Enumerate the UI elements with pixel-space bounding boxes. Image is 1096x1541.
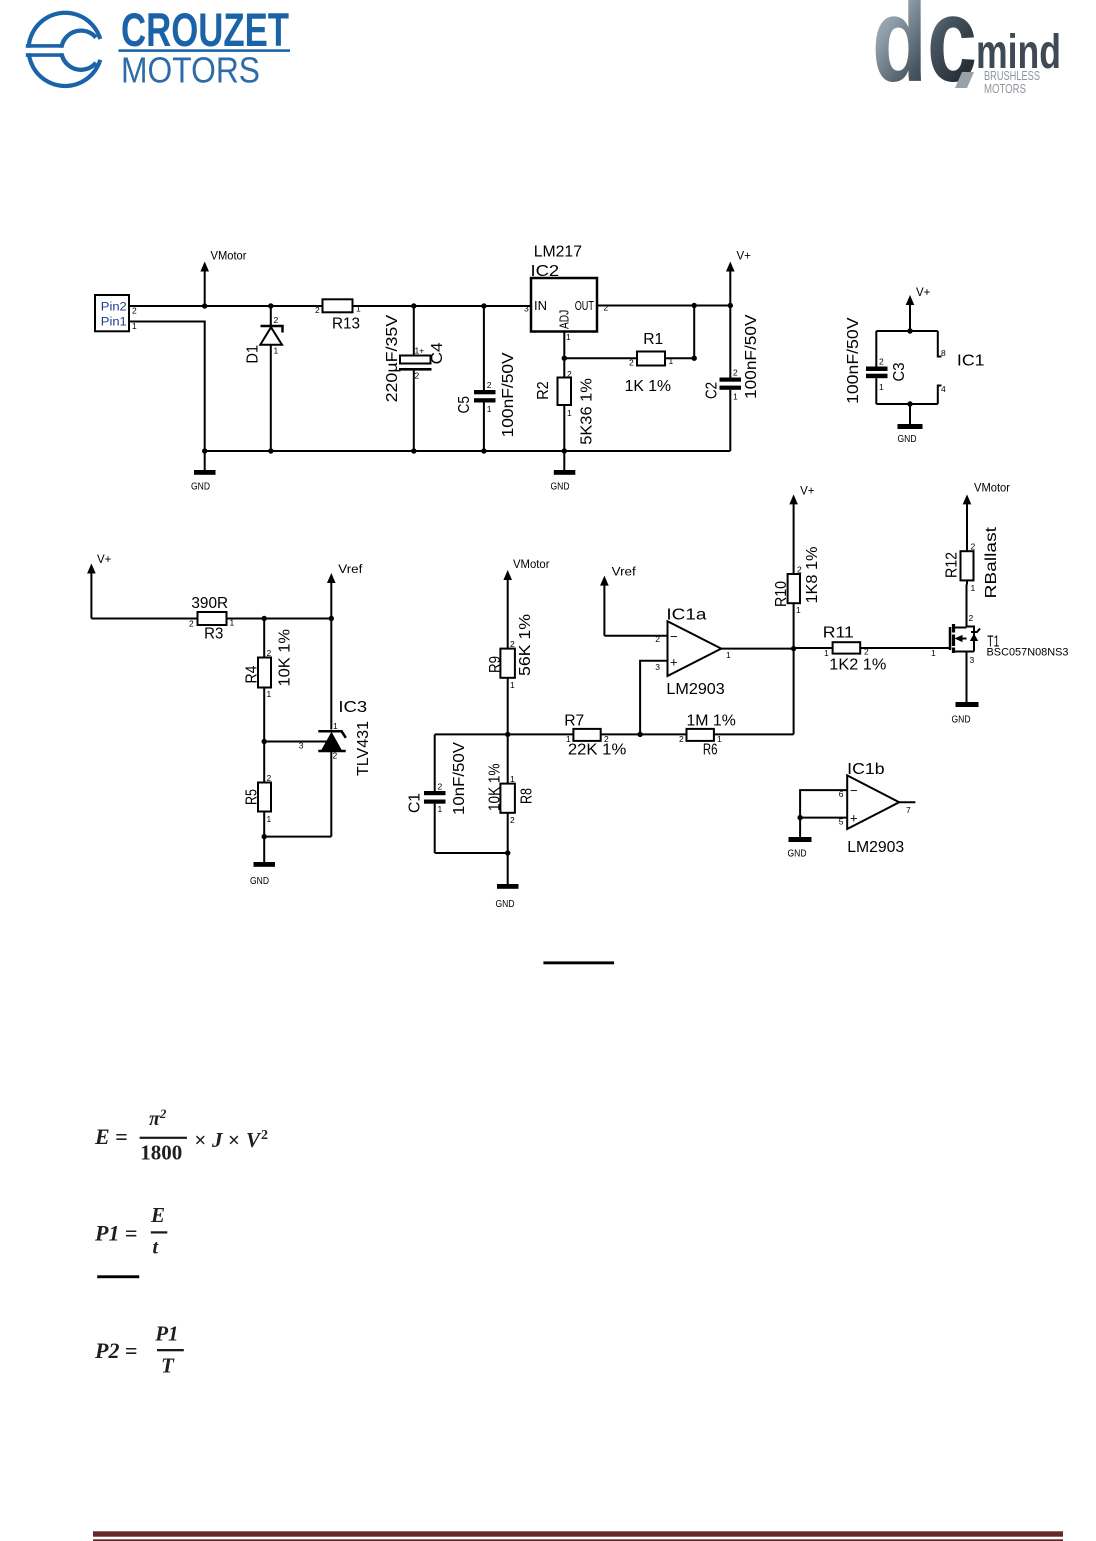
svg-text:1: 1	[726, 650, 731, 660]
svg-text:GND: GND	[191, 481, 210, 493]
svg-text:R3: R3	[204, 626, 223, 643]
svg-text:V+: V+	[97, 554, 112, 566]
svg-text:RBallast: RBallast	[983, 526, 1000, 598]
svg-text:1K2 1%: 1K2 1%	[829, 656, 886, 673]
svg-text:2: 2	[510, 815, 515, 825]
svg-text:TLV431: TLV431	[355, 721, 372, 776]
svg-text:Pin2: Pin2	[101, 302, 127, 314]
svg-text:1: 1	[230, 618, 235, 628]
svg-text:Pin1: Pin1	[101, 316, 127, 328]
svg-text:ADJ: ADJ	[557, 310, 572, 329]
svg-text:1+: 1+	[415, 346, 425, 356]
svg-text:R4: R4	[244, 665, 261, 683]
svg-text:R12: R12	[944, 552, 961, 578]
svg-text:C3: C3	[891, 362, 908, 381]
svg-text:IC1a: IC1a	[666, 606, 706, 623]
svg-text:+: +	[850, 811, 858, 826]
svg-text:IN: IN	[534, 298, 547, 313]
svg-text:Vref: Vref	[612, 567, 637, 579]
svg-text:GND: GND	[952, 714, 971, 726]
svg-text:3: 3	[970, 655, 975, 665]
svg-text:MOTORS: MOTORS	[121, 50, 260, 91]
svg-text:−: −	[850, 783, 858, 798]
svg-text:1: 1	[971, 583, 976, 593]
svg-text:1: 1	[733, 392, 738, 402]
svg-text:1K 1%: 1K 1%	[625, 378, 672, 395]
svg-text:3: 3	[299, 741, 304, 751]
svg-text:1: 1	[510, 774, 515, 784]
svg-text:10nF/50V: 10nF/50V	[451, 742, 468, 815]
svg-text:2: 2	[567, 369, 572, 379]
svg-text:2: 2	[189, 619, 194, 629]
svg-text:1: 1	[438, 804, 443, 814]
svg-text:BSC057N08NS3: BSC057N08NS3	[987, 647, 1069, 659]
svg-text:GND: GND	[898, 433, 917, 445]
svg-text:1: 1	[669, 356, 674, 366]
svg-text:C5: C5	[456, 396, 473, 414]
svg-text:2: 2	[655, 634, 660, 644]
svg-text:dc: dc	[872, 0, 977, 107]
svg-text:T: T	[161, 1354, 175, 1378]
svg-text:5K36 1%: 5K36 1%	[579, 378, 596, 445]
svg-text:π2: π2	[149, 1106, 167, 1130]
svg-text:100nF/50V: 100nF/50V	[743, 314, 760, 399]
svg-text:1: 1	[356, 304, 361, 314]
svg-text:2: 2	[267, 773, 272, 783]
svg-text:CROUZET: CROUZET	[121, 3, 289, 56]
svg-text:×J×V2: ×J×V2	[194, 1128, 268, 1152]
svg-text:R6: R6	[703, 741, 718, 758]
svg-text:IC2: IC2	[531, 263, 560, 280]
svg-text:8: 8	[941, 348, 946, 358]
svg-text:R13: R13	[332, 316, 360, 333]
svg-text:VMotor: VMotor	[513, 559, 550, 571]
svg-text:R11: R11	[823, 624, 854, 641]
svg-text:2: 2	[629, 358, 634, 368]
svg-text:R10: R10	[773, 581, 790, 607]
svg-text:100nF/50V: 100nF/50V	[845, 317, 862, 404]
svg-text:P1 =: P1 =	[94, 1221, 138, 1246]
svg-text:V+: V+	[737, 251, 752, 263]
svg-text:IC1b: IC1b	[847, 761, 885, 778]
svg-text:1: 1	[487, 404, 492, 414]
svg-text:2: 2	[971, 542, 976, 552]
svg-text:OUT: OUT	[575, 298, 594, 313]
svg-text:1: 1	[566, 332, 571, 342]
svg-text:R7: R7	[564, 712, 584, 729]
svg-text:LM2903: LM2903	[666, 681, 724, 698]
svg-text:+: +	[670, 655, 678, 670]
svg-text:10K 1%: 10K 1%	[487, 764, 504, 812]
svg-text:V+: V+	[916, 287, 931, 299]
svg-text:2: 2	[315, 305, 320, 315]
svg-text:390R: 390R	[191, 595, 228, 612]
svg-text:10K 1%: 10K 1%	[277, 629, 294, 687]
svg-text:1: 1	[567, 408, 572, 418]
svg-text:2: 2	[864, 647, 869, 657]
svg-text:t: t	[153, 1237, 160, 1259]
svg-text:220µF/35V: 220µF/35V	[384, 314, 401, 402]
svg-text:2: 2	[333, 751, 338, 761]
svg-text:1: 1	[566, 734, 571, 744]
svg-text:7: 7	[906, 805, 911, 815]
svg-text:1: 1	[333, 721, 338, 731]
svg-text:GND: GND	[788, 848, 807, 860]
svg-text:100nF/50V: 100nF/50V	[500, 352, 517, 437]
svg-text:1: 1	[267, 689, 272, 699]
svg-text:GND: GND	[551, 481, 570, 493]
svg-text:56K 1%: 56K 1%	[517, 614, 534, 676]
svg-text:1800: 1800	[140, 1141, 182, 1165]
svg-text:GND: GND	[496, 898, 515, 910]
svg-text:LM217: LM217	[534, 243, 582, 260]
svg-text:R1: R1	[643, 331, 663, 348]
svg-text:D1: D1	[244, 345, 261, 364]
svg-text:R2: R2	[535, 381, 552, 400]
svg-text:1: 1	[824, 648, 829, 658]
svg-text:2: 2	[604, 303, 609, 313]
svg-text:2: 2	[415, 371, 420, 381]
svg-text:2: 2	[679, 734, 684, 744]
svg-text:1: 1	[274, 346, 279, 356]
svg-text:C4: C4	[429, 342, 446, 364]
svg-text:1: 1	[267, 814, 272, 824]
svg-text:22K 1%: 22K 1%	[568, 741, 626, 758]
svg-text:2: 2	[969, 613, 974, 623]
svg-text:1: 1	[879, 382, 884, 392]
svg-text:P1: P1	[154, 1322, 178, 1346]
svg-text:GND: GND	[250, 875, 269, 887]
svg-text:VMotor: VMotor	[211, 251, 247, 263]
svg-text:VMotor: VMotor	[974, 483, 1010, 495]
svg-text:E =: E =	[94, 1124, 128, 1149]
svg-text:R9: R9	[487, 656, 504, 673]
svg-text:2: 2	[797, 565, 802, 575]
svg-text:3: 3	[655, 662, 660, 672]
svg-text:R8: R8	[519, 788, 536, 804]
svg-text:1: 1	[931, 648, 936, 658]
svg-text:E: E	[150, 1203, 165, 1227]
svg-text:2: 2	[510, 639, 515, 649]
svg-text:V+: V+	[800, 485, 815, 497]
svg-text:2: 2	[733, 368, 738, 378]
svg-text:3: 3	[524, 304, 529, 314]
svg-text:1: 1	[717, 734, 722, 744]
svg-text:1M 1%: 1M 1%	[687, 712, 736, 729]
svg-text:1K8 1%: 1K8 1%	[804, 547, 821, 604]
svg-text:IC3: IC3	[338, 699, 367, 716]
svg-text:2: 2	[879, 357, 884, 367]
svg-text:−: −	[670, 629, 678, 644]
svg-text:2: 2	[487, 380, 492, 390]
svg-text:IC1: IC1	[957, 353, 985, 370]
svg-text:R5: R5	[244, 789, 261, 805]
svg-text:1: 1	[510, 680, 515, 690]
svg-text:1: 1	[796, 605, 801, 615]
svg-text:2: 2	[274, 315, 279, 325]
svg-text:MOTORS: MOTORS	[984, 81, 1026, 96]
svg-text:2: 2	[267, 648, 272, 658]
svg-text:4: 4	[941, 384, 946, 394]
svg-text:Vref: Vref	[338, 564, 363, 576]
svg-text:C2: C2	[704, 382, 721, 399]
svg-text:P2 =: P2 =	[94, 1338, 138, 1363]
svg-text:2: 2	[604, 734, 609, 744]
svg-text:2: 2	[438, 782, 443, 792]
svg-text:C1: C1	[407, 793, 424, 813]
svg-text:LM2903: LM2903	[847, 839, 904, 856]
